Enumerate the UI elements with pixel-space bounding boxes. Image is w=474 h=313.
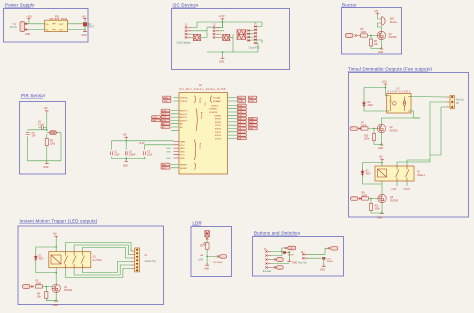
net flag S2	[328, 247, 338, 251]
svg-text:LDR: LDR	[198, 260, 203, 262]
svg-text:2N7000: 2N7000	[390, 200, 399, 202]
supply +5V	[44, 108, 49, 130]
svg-text:4007: 4007	[39, 259, 45, 261]
svg-text:12/MISO: 12/MISO	[209, 109, 218, 111]
button S2	[274, 266, 283, 270]
buzzer BZ1	[381, 17, 398, 26]
svg-text:4x-TW-K: 4x-TW-K	[93, 260, 102, 262]
svg-text:9/PB1: 9/PB1	[215, 119, 222, 121]
svg-text:RST: RST	[162, 168, 167, 170]
wire to output	[411, 97, 446, 163]
svg-text:A0/PC0: A0/PC0	[180, 110, 188, 113]
wire coil top rail	[36, 247, 56, 284]
svg-text:11/MOSI: 11/MOSI	[209, 112, 218, 114]
ground	[378, 143, 384, 150]
connector FanOut	[446, 95, 464, 109]
svg-text:C8 100nF: C8 100nF	[213, 262, 223, 264]
svg-text:100k: 100k	[375, 209, 381, 211]
resistor R9 100R	[362, 193, 369, 201]
section frame	[253, 237, 344, 277]
ssr U2	[387, 89, 411, 114]
svg-text:G5LE-1: G5LE-1	[417, 175, 426, 177]
capacitor C3 10uF	[144, 151, 146, 155]
svg-text:RX/PD0: RX/PD0	[180, 98, 189, 100]
wire gate	[368, 118, 420, 134]
section frame	[20, 102, 66, 175]
svg-text:GND: GND	[123, 165, 128, 167]
power pins	[166, 140, 201, 161]
digital pins	[209, 104, 257, 140]
wire to gnd2	[371, 203, 382, 213]
svg-text:OUT: OUT	[59, 24, 64, 26]
connector PIR	[47, 131, 57, 135]
svg-text:Power: Power	[199, 143, 201, 149]
svg-text:FAN: FAN	[249, 118, 254, 121]
module RTC hatched body	[237, 29, 254, 41]
svg-text:GND: GND	[53, 305, 58, 307]
connector pin FAN	[350, 127, 361, 131]
ground	[82, 30, 88, 38]
svg-text:GND: GND	[378, 148, 383, 150]
connector J6 Time Set	[298, 252, 308, 265]
diode D2 4148	[362, 100, 373, 107]
ground	[204, 263, 209, 271]
svg-text:10/PB2: 10/PB2	[214, 115, 222, 117]
wire left rail	[364, 88, 387, 112]
serial pins RX TX	[163, 96, 201, 104]
ground	[219, 56, 225, 63]
svg-text:6/PD6: 6/PD6	[215, 129, 222, 131]
svg-text:Serial: Serial	[199, 98, 201, 104]
ground	[124, 159, 128, 161]
wire gate	[43, 287, 53, 292]
svg-text:2N7000: 2N7000	[389, 37, 398, 39]
svg-text:+3.3V: +3.3V	[219, 16, 226, 18]
svg-text:IN-: IN-	[46, 30, 49, 32]
svg-text:100nF: 100nF	[288, 254, 295, 256]
capacitor C9 100nF	[283, 251, 294, 256]
svg-text:R10: R10	[364, 136, 369, 138]
analog pins A0-A7	[152, 109, 204, 132]
svg-text:+3.3V: +3.3V	[139, 143, 146, 145]
svg-text:+12V: +12V	[391, 189, 397, 191]
svg-text:LDR: LDR	[193, 221, 202, 226]
wire time set	[308, 248, 329, 265]
svg-text:+5V: +5V	[289, 248, 293, 250]
svg-text:5/PD5: 5/PD5	[215, 132, 222, 134]
wire coil rail	[363, 163, 383, 195]
capacitor C10 100nF	[322, 257, 333, 263]
diode D3 4007	[361, 169, 371, 176]
svg-text:Buzzer: Buzzer	[390, 21, 397, 24]
reset pins	[161, 163, 196, 170]
svg-text:PIR: PIR	[153, 120, 157, 122]
wire relay contacts	[397, 160, 430, 186]
capacitor C1 10uF	[111, 151, 113, 155]
i2c pins SCL SDA	[205, 96, 257, 106]
svg-text:Buzzer: Buzzer	[342, 3, 357, 8]
svg-text:I2C Devices: I2C Devices	[173, 3, 199, 8]
wire contact staircase	[66, 243, 131, 278]
ic body	[179, 93, 228, 175]
section frame	[349, 73, 469, 218]
connector pin BUZ	[346, 34, 357, 38]
svg-text:FanOut: FanOut	[456, 99, 464, 102]
connector pin LDR_IN	[205, 231, 209, 240]
ldr R2	[198, 242, 209, 261]
supply +5V	[374, 11, 381, 19]
ground	[377, 211, 384, 219]
svg-text:Instant Motion Trigger (LED ou: Instant Motion Trigger (LED outputs)	[20, 218, 98, 223]
svg-text:VCC: VCC	[180, 145, 185, 147]
svg-text:4007: 4007	[366, 174, 372, 176]
button S1	[274, 258, 283, 262]
resistor R3 100R	[36, 281, 43, 289]
module OLED hatched body	[177, 34, 201, 44]
svg-text:RESET: RESET	[180, 168, 188, 170]
svg-text:VCC: VCC	[180, 155, 185, 157]
connector J4 Clock RTC	[249, 24, 263, 50]
connector J1 OLED display	[185, 25, 207, 39]
supply +12V	[26, 17, 32, 24]
svg-text:VOUT: VOUT	[404, 189, 411, 191]
svg-text:+5V: +5V	[53, 234, 58, 236]
svg-text:OUT: OUT	[59, 30, 64, 32]
transistor Q2 2N7000	[377, 124, 398, 132]
svg-text:Pro_Mini_Classic_Socket_NoISP: Pro_Mini_Classic_Socket_NoISP	[180, 88, 226, 91]
svg-text:4148: 4148	[368, 105, 374, 107]
section frame	[172, 9, 290, 70]
diode D1 4007	[34, 254, 44, 261]
svg-text:GND: GND	[204, 269, 209, 271]
svg-text:12V IN: 12V IN	[10, 27, 17, 29]
resistor R11 100k	[369, 204, 380, 211]
svg-text:GND: GND	[82, 35, 87, 37]
section frame	[18, 226, 164, 305]
wire +5V out	[68, 21, 86, 31]
wire	[207, 240, 217, 264]
wire gate2	[369, 199, 378, 204]
capacitor C2 100nF	[125, 151, 127, 155]
resistor R8 100k	[45, 139, 56, 146]
i2c bus wires	[197, 22, 262, 56]
connector J4 encoder	[263, 249, 272, 273]
connector pin REL	[351, 197, 362, 201]
svg-text:+5V: +5V	[379, 157, 384, 159]
svg-text:SCL/A5: SCL/A5	[213, 97, 221, 100]
supply +5V	[53, 234, 59, 252]
svg-text:SDA/A4: SDA/A4	[213, 100, 221, 103]
svg-text:GND: GND	[25, 34, 30, 36]
svg-text:8/PB0: 8/PB0	[215, 122, 222, 124]
section frame	[191, 227, 232, 277]
svg-text:GND: GND	[180, 148, 185, 150]
net flag C8 100nF	[213, 255, 227, 265]
svg-text:100k: 100k	[364, 139, 370, 141]
supply +5V	[379, 157, 384, 166]
connector X1 12V IN	[10, 22, 28, 32]
resistor R10 100k	[364, 134, 376, 141]
ground	[287, 259, 297, 265]
resistor R6 10k	[369, 39, 378, 46]
svg-text:SDA: SDA	[249, 100, 254, 103]
svg-text:2N7000: 2N7000	[390, 130, 399, 132]
transistor Q1 2N7000	[52, 284, 73, 292]
wire buzzer to Q4	[378, 23, 382, 31]
svg-text:POUT: POUT	[88, 27, 95, 29]
svg-text:Analog: Analog	[200, 112, 203, 119]
svg-text:GND: GND	[320, 269, 325, 271]
svg-text:100k: 100k	[50, 144, 56, 146]
svg-text:BZ1: BZ1	[390, 19, 395, 21]
resistor R5 100R	[358, 29, 368, 37]
supply +5V	[82, 16, 87, 20]
svg-text:+5V: +5V	[374, 11, 379, 13]
svg-text:100nF: 100nF	[327, 261, 334, 263]
svg-text:TX/PD1: TX/PD1	[180, 101, 188, 103]
LED D2 POUT	[83, 23, 95, 29]
svg-text:GND: GND	[378, 52, 383, 54]
svg-text:1uF: 1uF	[32, 136, 37, 138]
connector J2	[213, 25, 233, 39]
svg-text:+5V: +5V	[44, 108, 49, 110]
transistor Q3 2N7000	[378, 194, 399, 202]
svg-text:instant Trig: instant Trig	[145, 260, 157, 263]
svg-text:A1/PC1: A1/PC1	[180, 113, 188, 116]
module BME280 hatched body	[223, 34, 230, 40]
supply +12V	[382, 81, 388, 95]
svg-text:A3/PC3: A3/PC3	[180, 119, 188, 122]
svg-text:GND: GND	[180, 158, 185, 160]
svg-text:Power Supply: Power Supply	[5, 3, 35, 8]
ground	[43, 161, 49, 169]
svg-text:RXD: RXD	[164, 98, 169, 100]
transistor Q4 2N7000	[377, 31, 397, 39]
resistor R4 10k	[37, 292, 48, 299]
svg-text:GND: GND	[377, 217, 382, 219]
svg-text:+12V: +12V	[382, 81, 388, 83]
svg-text:GND: GND	[219, 62, 224, 64]
connector L2 instant Trig	[131, 248, 156, 272]
svg-text:TXD: TXD	[164, 101, 169, 103]
wire junction dots	[46, 21, 387, 301]
svg-text:2N7000: 2N7000	[64, 290, 73, 292]
ground	[378, 47, 384, 54]
wire vcc rail	[112, 140, 174, 161]
svg-text:OLED display: OLED display	[177, 43, 192, 45]
regulator PS1 MP1584_PWR	[45, 16, 68, 31]
connector pin LED	[23, 285, 34, 289]
svg-text:Encoder: Encoder	[263, 270, 272, 273]
svg-text:Clock RTC: Clock RTC	[249, 48, 260, 50]
svg-text:+5V: +5V	[123, 135, 128, 137]
svg-text:3/PD3: 3/PD3	[215, 138, 222, 140]
section frame	[4, 9, 89, 43]
svg-text:PIR Sensor: PIR Sensor	[21, 93, 46, 98]
wire to gnd	[374, 133, 382, 145]
wire gate	[368, 36, 378, 40]
wire source to gnd	[371, 40, 382, 49]
wire encoder	[271, 248, 289, 267]
svg-text:GND: GND	[166, 158, 171, 160]
svg-text:4/PD4: 4/PD4	[215, 135, 222, 137]
svg-text:SDA: SDA	[238, 100, 243, 103]
relay K1 4x-TW-K	[49, 252, 103, 268]
wire to gnd	[46, 293, 56, 301]
svg-text:RESET: RESET	[180, 165, 188, 167]
resistor R7 100R	[361, 123, 368, 131]
capacitor C5 1uF	[26, 133, 36, 138]
svg-text:GND: GND	[43, 167, 48, 169]
decoupling caps	[111, 135, 174, 168]
svg-text:100nF: 100nF	[129, 155, 136, 157]
svg-text:I2C: I2C	[205, 102, 207, 106]
svg-text:A2/PC2: A2/PC2	[180, 116, 188, 119]
ground	[53, 299, 59, 307]
ground	[320, 264, 326, 271]
svg-text:13/SCK: 13/SCK	[211, 105, 219, 107]
net flag +5V	[285, 246, 296, 250]
svg-text:Buttons and Switches: Buttons and Switches	[254, 231, 301, 236]
svg-text:7/PD7: 7/PD7	[215, 125, 222, 127]
svg-text:10uF: 10uF	[147, 155, 153, 157]
svg-text:Timed Dimmable Outputs (Fan ou: Timed Dimmable Outputs (Fan outputs)	[348, 67, 432, 72]
svg-text:Time Set: Time Set	[298, 262, 307, 265]
relay K2 G5LE-1	[375, 166, 426, 181]
svg-text:GND: GND	[166, 151, 171, 153]
svg-text:GND: GND	[180, 151, 185, 153]
svg-text:GND: GND	[166, 148, 171, 150]
capacitor C6 0.1uF	[38, 122, 47, 130]
section frame	[342, 8, 402, 55]
svg-text:10uF: 10uF	[114, 155, 120, 157]
supply +3.3V	[219, 16, 226, 27]
wire 12V	[28, 24, 45, 30]
wire rail	[28, 130, 61, 161]
